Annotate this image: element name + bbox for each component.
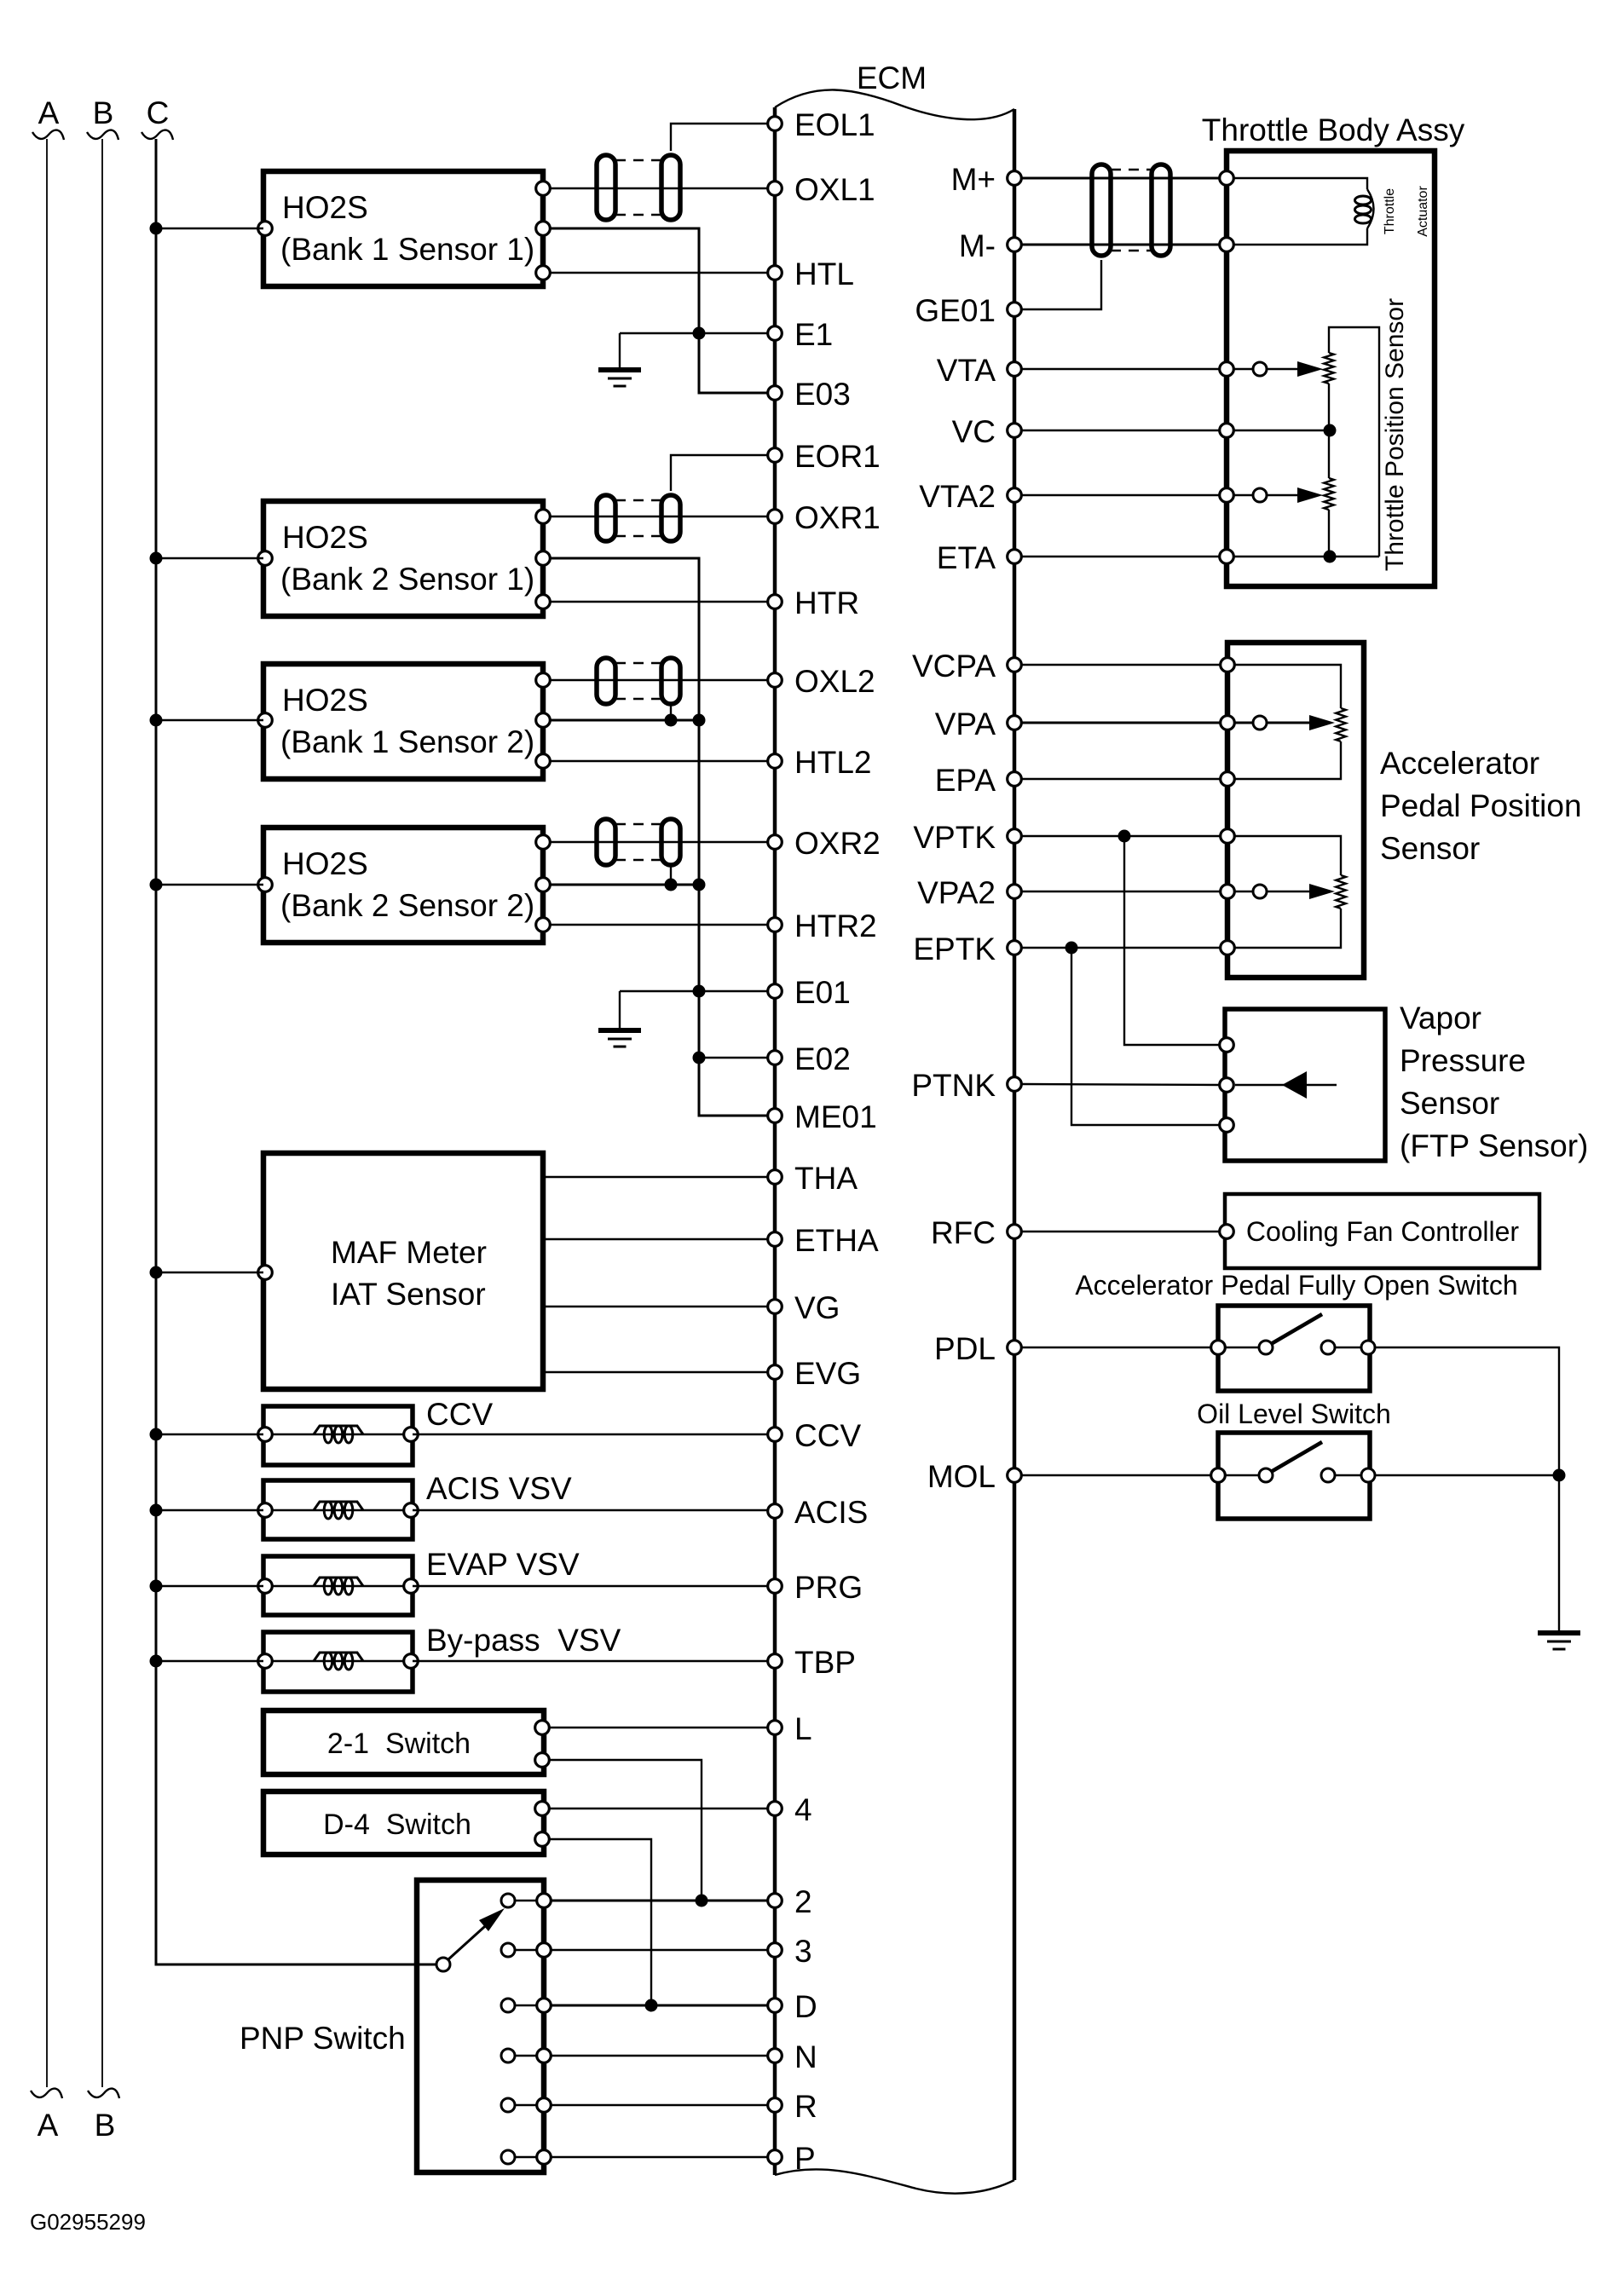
wire 4	[549, 1808, 768, 1809]
solenoid valve Bypass	[258, 1623, 621, 1692]
svg-text:Sensor: Sensor	[1380, 831, 1480, 866]
svg-text:D: D	[794, 1989, 817, 2024]
svg-text:B: B	[93, 95, 114, 130]
throttle body pins	[1220, 171, 1234, 186]
svg-text:E02: E02	[794, 1041, 851, 1076]
svg-text:HTL2: HTL2	[794, 745, 871, 780]
wire PNP 2	[551, 1900, 768, 1902]
svg-text:(Bank 2 Sensor 2): (Bank 2 Sensor 2)	[280, 888, 534, 923]
ECM left boundary line	[773, 107, 777, 2175]
wire M-	[1021, 244, 1220, 246]
wire PNP N	[551, 2055, 768, 2057]
pin RFC	[931, 1215, 1021, 1250]
svg-text:ETHA: ETHA	[794, 1223, 879, 1258]
pin 3	[768, 1934, 812, 1969]
svg-text:HO2S: HO2S	[282, 520, 368, 555]
pin E1	[768, 317, 834, 352]
wire 2-1 switch to pin 2	[549, 1760, 702, 1901]
svg-text:2-1 Switch: 2-1 Switch	[327, 1728, 471, 1760]
svg-text:(Bank 1 Sensor 1): (Bank 1 Sensor 1)	[280, 232, 534, 267]
svg-text:EPTK: EPTK	[913, 932, 996, 966]
APP resistor 2	[1234, 836, 1341, 875]
wire PDL	[1021, 1347, 1211, 1348]
PNP contact row 2	[501, 1943, 551, 1958]
label Throttle Actuator (rotated)	[1383, 186, 1430, 237]
wire RFC	[1021, 1231, 1220, 1232]
wire E02 with junction	[693, 1052, 769, 1064]
svg-text:CCV: CCV	[794, 1418, 861, 1453]
svg-text:Accelerator Pedal Fully Open S: Accelerator Pedal Fully Open Switch	[1075, 1270, 1517, 1301]
svg-text:RFC: RFC	[931, 1215, 996, 1250]
wire VCPA	[1021, 664, 1221, 666]
svg-text:D-4 Switch: D-4 Switch	[323, 1809, 471, 1841]
wire EVAP to ECM	[413, 1585, 768, 1587]
pin EPA	[935, 763, 1022, 798]
svg-text:3: 3	[794, 1934, 812, 1969]
wire HTR	[550, 601, 768, 603]
box Cooling Fan Controller	[1220, 1194, 1539, 1268]
ground E01	[598, 1030, 641, 1047]
wire E01 ground stem	[619, 991, 621, 1030]
svg-text:Throttle: Throttle	[1383, 188, 1397, 234]
wire VPA2	[1021, 891, 1221, 892]
wire M+	[1021, 177, 1220, 180]
svg-text:EPA: EPA	[935, 763, 996, 798]
wire C to Bypass	[150, 1655, 264, 1668]
wire OXR1	[550, 516, 768, 517]
wire PNP D	[551, 2005, 768, 2007]
wire ground rail down	[1558, 1475, 1560, 1632]
node B (top label)	[87, 95, 118, 140]
junction pin2/2-1	[696, 1895, 708, 1907]
switch Accelerator Pedal Fully Open (PDL)	[1211, 1306, 1375, 1391]
svg-text:2: 2	[794, 1884, 812, 1919]
PNP contact row 3	[501, 1999, 551, 2013]
svg-text:VG: VG	[794, 1290, 840, 1325]
sensor MAF Meter / IAT Sensor	[258, 1153, 543, 1389]
pin HTL	[768, 257, 854, 291]
pin D	[768, 1989, 817, 2024]
svg-text:Oil Level Switch: Oil Level Switch	[1197, 1399, 1391, 1429]
pin EVG	[768, 1356, 861, 1391]
node A (top label)	[32, 95, 64, 140]
svg-text:OXR2: OXR2	[794, 826, 881, 861]
ECM right boundary line	[1013, 109, 1017, 2180]
svg-text:VPA: VPA	[935, 707, 996, 741]
sensor HO2S (Bank 1 Sensor 2)	[258, 664, 551, 779]
svg-text:HTR: HTR	[794, 586, 859, 620]
svg-text:(Bank 1 Sensor 2): (Bank 1 Sensor 2)	[280, 724, 534, 759]
pin PDL	[934, 1331, 1021, 1366]
svg-text:THA: THA	[794, 1161, 858, 1196]
svg-text:VPA2: VPA2	[917, 875, 996, 910]
pin E01	[768, 975, 851, 1010]
wire E1 with junction	[620, 327, 768, 340]
svg-text:IAT Sensor: IAT Sensor	[331, 1277, 486, 1312]
pin VCPA	[912, 649, 1021, 684]
pin HTL2	[768, 745, 872, 780]
wire B vertical	[101, 139, 103, 2087]
wire EOR1 shield drain	[671, 455, 768, 491]
svg-text:M-: M-	[959, 228, 996, 263]
svg-text:ETA: ETA	[937, 540, 996, 575]
wire C to EVAP	[150, 1580, 264, 1593]
pin 4	[768, 1792, 812, 1827]
svg-text:PDL: PDL	[934, 1331, 996, 1366]
wire VPTK to vapor sensor	[1124, 836, 1220, 1045]
wire ACIS to ECM	[413, 1509, 768, 1511]
svg-text:(Bank 2 Sensor 1): (Bank 2 Sensor 1)	[280, 562, 534, 597]
sensor HO2S (Bank 2 Sensor 2)	[258, 828, 551, 943]
APP sensor pins	[1221, 658, 1235, 672]
wire PTNK	[1021, 1084, 1220, 1085]
PNP contact row 6	[501, 2150, 551, 2165]
wire VPA	[1021, 722, 1221, 724]
node C (top label)	[141, 95, 173, 140]
svg-text:GE01: GE01	[915, 293, 996, 328]
ground E1	[598, 370, 641, 386]
svg-text:By-pass VSV: By-pass VSV	[426, 1623, 621, 1658]
svg-text:Pedal Position: Pedal Position	[1380, 788, 1582, 823]
wire VG	[543, 1306, 768, 1307]
svg-text:R: R	[794, 2089, 817, 2124]
APP resistor 1	[1234, 665, 1341, 708]
svg-text:(FTP Sensor): (FTP Sensor)	[1400, 1128, 1588, 1163]
pin OXR1	[768, 500, 881, 535]
shielded twisted pair B1S1	[597, 155, 680, 220]
svg-text:Accelerator: Accelerator	[1380, 746, 1539, 781]
wire B2S2 shield drain to middle	[670, 865, 672, 885]
APP wiper VPA	[1234, 715, 1335, 730]
TPS wiper VTA	[1233, 361, 1323, 377]
wire C to MAF	[150, 1266, 264, 1279]
pin VPA2	[917, 875, 1021, 910]
svg-text:L: L	[794, 1711, 812, 1746]
wire VTA	[1021, 368, 1220, 370]
node A (bottom label)	[31, 2089, 62, 2143]
pin L	[768, 1711, 812, 1746]
solenoid valve CCV	[258, 1397, 494, 1465]
wire B1S2 middle to ground bus	[550, 714, 706, 727]
PNP contact row 5	[501, 2098, 551, 2113]
PNP common contact and rotor arm	[436, 1908, 505, 1971]
TPS wiper VTA2	[1233, 487, 1323, 503]
svg-text:Throttle Position Sensor: Throttle Position Sensor	[1381, 298, 1409, 571]
shielded twisted pair B2S1	[597, 495, 680, 541]
svg-text:OXR1: OXR1	[794, 500, 881, 535]
pin EPTK	[913, 932, 1021, 966]
svg-text:EOR1: EOR1	[794, 439, 881, 474]
pin VPTK	[913, 820, 1021, 855]
wire A vertical	[46, 139, 48, 2087]
pin P	[768, 2141, 816, 2176]
wire MOL switch to ground rail with junction	[1375, 1469, 1566, 1482]
wire L	[549, 1727, 768, 1728]
wire HTL	[550, 272, 768, 274]
wire THA	[543, 1176, 768, 1178]
pin GE01	[915, 293, 1021, 328]
wire B1S1 middle to ground bus	[550, 228, 768, 393]
wire C to HO2S B1S2	[150, 714, 264, 727]
svg-text:PTNK: PTNK	[911, 1068, 996, 1103]
svg-text:P: P	[794, 2141, 816, 2176]
pin PRG	[768, 1570, 863, 1605]
wire HTL2	[550, 760, 768, 762]
wire C to ACIS	[150, 1504, 264, 1517]
svg-text:Sensor: Sensor	[1400, 1086, 1499, 1121]
wire EVG	[543, 1371, 768, 1373]
wire VTA2	[1021, 494, 1220, 496]
wire OXL2	[550, 679, 768, 681]
ECM bottom break wave	[775, 2169, 1014, 2193]
TPS resistor 1	[1329, 327, 1379, 557]
svg-text:Actuator: Actuator	[1416, 186, 1430, 237]
svg-text:ECM: ECM	[857, 61, 927, 95]
wire D-4 switch to pin D	[549, 1839, 651, 2005]
APP wiper VPA2	[1234, 884, 1335, 899]
TPS resistor 2	[1324, 478, 1334, 510]
TPS resistor 2 bottom link	[1328, 510, 1330, 557]
svg-text:VTA2: VTA2	[919, 479, 996, 514]
wire VPTK	[1021, 830, 1221, 843]
shielded twisted pair M+/M-	[1092, 164, 1170, 256]
shielded twisted pair B1S2	[597, 658, 680, 704]
svg-text:4: 4	[794, 1792, 812, 1827]
sensor HO2S (Bank 1 Sensor 1)	[258, 171, 551, 286]
svg-text:C: C	[147, 95, 170, 130]
wire OXL1	[550, 187, 768, 189]
ground right rail	[1538, 1633, 1580, 1649]
pin TBP	[768, 1645, 856, 1680]
pin EOL1	[768, 107, 875, 142]
wire C to HO2S B2S1	[150, 552, 264, 565]
wire PNP 3	[551, 1949, 768, 1951]
svg-text:VC: VC	[952, 414, 996, 449]
wire MOL	[1021, 1474, 1211, 1476]
svg-text:MAF Meter: MAF Meter	[331, 1235, 487, 1270]
svg-text:E1: E1	[794, 317, 833, 352]
wire B1S2 shield drain to middle	[670, 704, 672, 720]
wire OXR2	[550, 841, 768, 843]
pin ETA	[937, 540, 1022, 575]
svg-text:TBP: TBP	[794, 1645, 856, 1680]
switch D-4 Switch	[263, 1791, 549, 1855]
junction pinD/D-4	[645, 1999, 658, 2012]
pin ME01	[768, 1099, 877, 1134]
wire PNP R	[551, 2104, 768, 2106]
svg-text:VPTK: VPTK	[913, 820, 996, 855]
wire C vertical bus	[156, 139, 436, 1964]
pin 2	[768, 1884, 812, 1919]
svg-text:OXL1: OXL1	[794, 172, 875, 207]
ECM top break wave	[775, 89, 1014, 119]
PNP contact row 4	[501, 2049, 551, 2063]
wire B2S2 middle to ground bus	[550, 879, 706, 891]
pin OXR2	[768, 826, 881, 861]
wire E1 ground stem	[619, 333, 621, 369]
svg-text:PRG: PRG	[794, 1570, 863, 1605]
svg-text:OXL2: OXL2	[794, 664, 875, 699]
svg-text:A: A	[38, 2108, 59, 2143]
svg-text:CCV: CCV	[426, 1397, 493, 1432]
svg-text:Pressure: Pressure	[1400, 1043, 1526, 1078]
wire ETHA	[543, 1238, 768, 1240]
wire B2S1 middle to ground bus	[550, 558, 768, 1116]
label Accelerator Pedal Position Sensor	[1380, 746, 1582, 866]
pin E03	[768, 377, 851, 412]
svg-text:HO2S: HO2S	[282, 190, 368, 225]
wire VC	[1021, 424, 1337, 437]
pin ACIS	[768, 1495, 869, 1530]
svg-text:HTR2: HTR2	[794, 909, 877, 943]
PNP contact row 1	[501, 1894, 551, 1908]
svg-text:HO2S: HO2S	[282, 846, 368, 881]
pin OXL1	[768, 172, 875, 207]
pin VG	[768, 1290, 840, 1325]
node B (bottom label)	[88, 2089, 119, 2143]
wire C to HO2S B2S2	[150, 879, 264, 891]
box Accelerator Pedal Position Sensor	[1227, 643, 1364, 978]
pin R	[768, 2089, 817, 2124]
wire EPTK	[1021, 942, 1221, 955]
wire Bypass to ECM	[413, 1660, 768, 1662]
pin VTA	[937, 353, 1022, 388]
pin PTNK	[911, 1068, 1021, 1103]
pin EOR1	[768, 439, 881, 474]
wire GE01 shield drain	[1021, 260, 1101, 309]
switch 2-1 Switch	[263, 1710, 549, 1774]
pin HTR	[768, 586, 859, 620]
svg-text:ACIS: ACIS	[794, 1495, 868, 1530]
pin THA	[768, 1161, 858, 1196]
svg-text:VCPA: VCPA	[912, 649, 996, 684]
wire PNP P	[551, 2156, 768, 2158]
wire E01 with junction	[620, 985, 768, 998]
pin ETHA	[768, 1223, 879, 1258]
svg-text:EVG: EVG	[794, 1356, 861, 1391]
svg-text:E01: E01	[794, 975, 851, 1010]
svg-text:A: A	[38, 95, 60, 130]
pin VTA2	[919, 479, 1021, 514]
svg-text:G02955299: G02955299	[30, 2209, 146, 2235]
pin HTR2	[768, 909, 877, 943]
svg-text:Throttle Body Assy: Throttle Body Assy	[1202, 112, 1465, 147]
svg-text:M+: M+	[951, 162, 996, 197]
svg-text:MOL: MOL	[927, 1459, 996, 1494]
svg-text:ACIS VSV: ACIS VSV	[426, 1471, 572, 1506]
wire ETA	[1021, 551, 1379, 563]
sensor HO2S (Bank 2 Sensor 1)	[258, 501, 551, 616]
wire PDL switch to ground rail	[1375, 1347, 1559, 1475]
svg-text:Vapor: Vapor	[1400, 1001, 1481, 1036]
box Vapor Pressure Sensor	[1225, 1009, 1385, 1161]
svg-text:B: B	[95, 2108, 116, 2143]
pin CCV	[768, 1418, 862, 1453]
box Throttle Body Assy	[1202, 112, 1465, 586]
pin E02	[768, 1041, 851, 1076]
svg-text:Cooling Fan Controller: Cooling Fan Controller	[1246, 1216, 1520, 1247]
shielded twisted pair B2S2	[597, 819, 680, 865]
pin VC	[952, 414, 1022, 449]
wire EOL1 shield drain	[671, 124, 768, 151]
pin M+	[951, 162, 1022, 197]
solenoid valve EVAP	[258, 1547, 580, 1615]
pin OXL2	[768, 664, 875, 699]
svg-text:ME01: ME01	[794, 1099, 877, 1134]
svg-text:N: N	[794, 2039, 817, 2074]
pin M-	[959, 228, 1021, 263]
svg-text:PNP Switch: PNP Switch	[240, 2021, 406, 2056]
svg-text:E03: E03	[794, 377, 851, 412]
wire EPTK to vapor sensor	[1071, 948, 1220, 1125]
svg-text:HTL: HTL	[794, 257, 854, 291]
svg-text:HO2S: HO2S	[282, 683, 368, 718]
switch PNP Switch	[240, 1880, 544, 2172]
svg-text:VTA: VTA	[937, 353, 996, 388]
label Vapor Pressure Sensor (FTP Sensor)	[1400, 1001, 1588, 1163]
TPS mid link	[1328, 384, 1330, 478]
pin N	[768, 2039, 817, 2074]
vapor sensor pins	[1220, 1038, 1234, 1053]
throttle actuator coil	[1233, 178, 1374, 245]
wire EPA	[1021, 778, 1221, 780]
wire C to CCV	[150, 1428, 264, 1441]
wire HTR2	[550, 924, 768, 926]
svg-text:EOL1: EOL1	[794, 107, 875, 142]
svg-text:EVAP VSV: EVAP VSV	[426, 1547, 580, 1582]
pin VPA	[935, 707, 1022, 741]
pin MOL	[927, 1459, 1021, 1494]
wire CCV to ECM	[413, 1434, 768, 1435]
switch Oil Level (MOL)	[1211, 1433, 1375, 1519]
vapor sensor arrow	[1235, 1071, 1337, 1099]
wire C to HO2S B1S1	[150, 222, 264, 235]
solenoid valve ACIS	[258, 1471, 572, 1539]
